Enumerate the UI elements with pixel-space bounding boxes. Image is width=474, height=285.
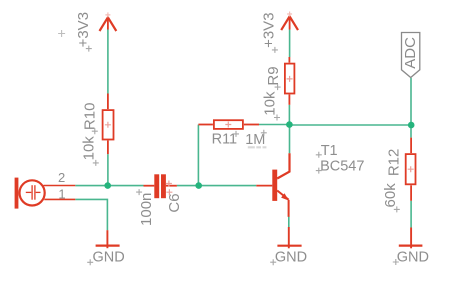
svg-text:+3V3: +3V3 xyxy=(261,12,278,47)
svg-text:10k: 10k xyxy=(262,91,279,116)
svg-text:GND: GND xyxy=(275,250,307,266)
svg-text:R12: R12 xyxy=(386,149,403,177)
svg-text:GND: GND xyxy=(397,250,429,266)
svg-text:R10: R10 xyxy=(82,103,99,131)
svg-text:10k: 10k xyxy=(81,136,98,161)
svg-text:1M: 1M xyxy=(245,132,265,148)
svg-text:100n: 100n xyxy=(138,193,155,226)
svg-text:GND: GND xyxy=(93,249,125,265)
svg-text:+3V3: +3V3 xyxy=(75,12,92,47)
svg-text:2: 2 xyxy=(58,170,65,185)
svg-text:60k: 60k xyxy=(382,183,399,208)
svg-text:ADC: ADC xyxy=(402,37,419,69)
svg-text:C6: C6 xyxy=(166,193,183,212)
svg-text:R9: R9 xyxy=(265,66,282,85)
svg-text:T1: T1 xyxy=(321,143,338,159)
svg-text:1: 1 xyxy=(58,186,65,201)
svg-text:BC547: BC547 xyxy=(320,159,364,175)
